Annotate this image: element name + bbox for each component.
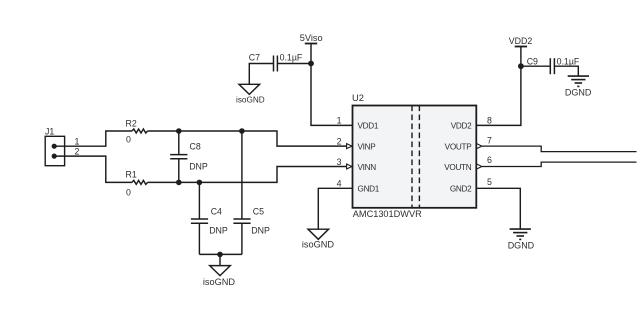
- resistor R1: [126, 170, 148, 198]
- svg-text:2: 2: [337, 136, 342, 146]
- svg-text:DNP: DNP: [209, 225, 228, 235]
- svg-text:DNP: DNP: [251, 225, 270, 235]
- node C4/C5 ground tie: [217, 252, 223, 258]
- svg-text:R1: R1: [126, 170, 137, 180]
- svg-text:8: 8: [487, 116, 492, 126]
- op-amp U2 AMC1301DWVR body: [352, 92, 476, 219]
- svg-text:5Viso: 5Viso: [300, 33, 323, 43]
- pin 2 input arrow: [347, 144, 352, 149]
- svg-text:J1: J1: [45, 126, 54, 136]
- wire pin 4 to isoGND: [318, 188, 352, 229]
- pin 6 output arrow: [477, 164, 482, 169]
- capacitor C5: [233, 131, 270, 254]
- svg-text:DNP: DNP: [189, 162, 208, 172]
- svg-text:VINN: VINN: [358, 163, 377, 172]
- node bottom rail / C8: [176, 180, 182, 186]
- svg-text:R2: R2: [126, 118, 137, 128]
- svg-text:5: 5: [487, 177, 492, 187]
- svg-text:1: 1: [75, 137, 80, 147]
- svg-text:DGND: DGND: [565, 88, 592, 98]
- wire pin 5 to DGND: [476, 188, 520, 229]
- capacitor C4: [191, 182, 228, 254]
- svg-text:0.1µF: 0.1µF: [557, 56, 580, 66]
- svg-text:2: 2: [75, 147, 80, 157]
- ground DGND (GND2): [508, 229, 535, 250]
- capacitor C9: [521, 56, 580, 76]
- svg-text:1: 1: [337, 116, 342, 126]
- node top rail / C8: [176, 128, 182, 134]
- wire node down to pin1: [311, 64, 353, 126]
- power VDD2: [509, 36, 533, 66]
- svg-text:GND2: GND2: [450, 185, 472, 194]
- svg-text:AMC1301DWVR: AMC1301DWVR: [353, 209, 422, 219]
- wire node to isoGND: [219, 254, 221, 265]
- connector J1: [45, 126, 65, 165]
- svg-text:DGND: DGND: [508, 240, 535, 250]
- svg-text:0: 0: [126, 134, 131, 144]
- wire bottom rail R1 to VINN step: [148, 167, 347, 183]
- isolation barrier dashed lines: [412, 106, 419, 208]
- capacitor C8: [170, 131, 208, 182]
- svg-text:3: 3: [337, 157, 342, 167]
- svg-text:0: 0: [126, 187, 131, 197]
- ground isoGND (C7): [236, 84, 265, 104]
- wire top rail R2 to VINP step: [148, 131, 347, 146]
- pin 7 output arrow: [477, 144, 482, 149]
- svg-text:GND1: GND1: [358, 185, 380, 194]
- node 5Viso / C7 / VDD1: [308, 61, 314, 67]
- resistor R2: [126, 118, 148, 144]
- svg-text:4: 4: [337, 179, 342, 189]
- wire node down to pin 8: [476, 66, 521, 125]
- svg-text:isoGND: isoGND: [302, 240, 335, 250]
- U2 right pin labels: [444, 122, 472, 194]
- wire J1 pin1 to R2: [54, 131, 132, 146]
- ground isoGND (GND1): [302, 229, 335, 249]
- svg-text:C9: C9: [527, 56, 538, 66]
- wire C4/C5 bottoms joined: [199, 253, 242, 255]
- svg-text:VOUTP: VOUTP: [445, 142, 473, 151]
- svg-text:U2: U2: [352, 92, 364, 103]
- svg-text:VDD1: VDD1: [358, 122, 379, 131]
- svg-text:VDD2: VDD2: [451, 122, 472, 131]
- svg-text:VDD2: VDD2: [509, 36, 533, 46]
- svg-text:VINP: VINP: [358, 142, 377, 151]
- U2 left pin labels: [358, 122, 380, 194]
- wire pin 7 VOUTP out: [482, 146, 637, 152]
- wire J1 pin2 to R1: [54, 156, 132, 182]
- node VDD2 / C9 / pin8: [518, 63, 524, 69]
- svg-text:C4: C4: [211, 207, 222, 217]
- svg-text:C5: C5: [253, 207, 264, 217]
- svg-text:C7: C7: [249, 53, 260, 63]
- svg-text:isoGND: isoGND: [236, 95, 265, 104]
- svg-text:C8: C8: [190, 141, 201, 151]
- svg-text:isoGND: isoGND: [203, 277, 236, 287]
- node bottom rail / C4: [197, 180, 203, 186]
- ground DGND (C9): [565, 76, 592, 98]
- svg-text:6: 6: [487, 155, 492, 165]
- pin 3 input arrow: [347, 164, 352, 169]
- svg-text:VOUTN: VOUTN: [444, 163, 472, 172]
- ground isoGND (below C4/C5): [203, 266, 236, 287]
- node top rail / C5: [239, 128, 245, 134]
- wire pin 6 VOUTN out: [482, 162, 637, 166]
- svg-text:7: 7: [487, 136, 492, 146]
- capacitor C7: [249, 53, 311, 85]
- svg-text:0.1µF: 0.1µF: [280, 53, 303, 63]
- power 5Viso: [300, 33, 323, 63]
